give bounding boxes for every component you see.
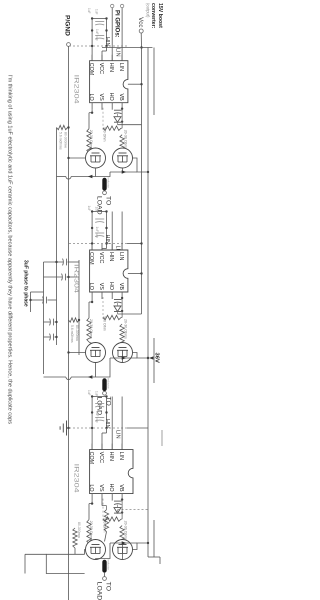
wire capC upper — [55, 336, 57, 338]
svg-text:VCC: VCC — [98, 63, 104, 74]
arrow up b2 — [122, 356, 127, 359]
junction VB b2 — [121, 297, 123, 299]
junction bank mid vcc b3 — [105, 411, 107, 413]
wire VCC b2 — [101, 249, 103, 250]
svg-text:LIN: LIN — [118, 252, 124, 260]
transistor Q3H — [113, 540, 133, 560]
terminal Vcc — [139, 29, 143, 33]
transistor Q3L — [86, 540, 106, 560]
pin LO U2 — [91, 292, 93, 299]
wire pcap1 lower — [44, 261, 64, 263]
wire source gnd b2 — [69, 352, 86, 354]
wire LIN b3 — [121, 397, 123, 450]
wire source loop b3 — [46, 554, 84, 573]
wire VCC jog b3 — [102, 432, 107, 434]
IC U3 IR2304 — [90, 450, 133, 494]
wire diode lead b3 — [117, 505, 119, 508]
svg-text:80-300mw: 80-300mw — [77, 522, 81, 538]
wire rail top seg3 — [153, 338, 155, 383]
wire bank close b3 — [92, 396, 106, 398]
wire vcc box drop b2 — [128, 273, 142, 275]
wire LO stub b3 — [91, 501, 93, 504]
wire VCC bank b2 — [106, 212, 108, 249]
wire HIN b3 — [111, 397, 113, 450]
wire gateL b3 — [89, 541, 93, 544]
svg-text:HO: HO — [108, 93, 114, 101]
wire vb link b2 — [121, 299, 123, 318]
capacitor C2boot — [114, 299, 122, 301]
wire bank close b1 — [92, 18, 106, 20]
svg-text:LIN: LIN — [115, 48, 121, 57]
junction diode vcc b3 — [121, 511, 123, 513]
svg-text:VCC: VCC — [98, 252, 104, 263]
svg-text:TO: TO — [104, 196, 111, 205]
wire VCC bank b3 — [106, 397, 108, 434]
pin HO U3 — [111, 494, 113, 501]
svg-text:300 Ohm: 300 Ohm — [103, 316, 107, 331]
svg-text:I'm thinking of using 1uF elec: I'm thinking of using 1uF electrolytic a… — [7, 75, 13, 424]
diode D2 bootstrap — [114, 306, 121, 312]
junction LO b2 — [91, 301, 93, 303]
wire LO jog b3 — [89, 503, 92, 505]
pin HO U1 — [111, 103, 113, 110]
resistor R1h gate high — [120, 135, 124, 156]
svg-text:HIN: HIN — [104, 419, 110, 429]
capacitor C1b 1uF — [95, 35, 104, 37]
svg-text:80-300mw: 80-300mw — [64, 132, 68, 148]
resistor R3h gate high — [120, 526, 124, 547]
wire boot vcc drop b1 — [118, 124, 142, 126]
wire source gnd b1 — [69, 157, 86, 159]
wire drain Q3H — [133, 543, 149, 550]
svg-text:VS: VS — [98, 283, 104, 291]
junction diode vcc b1 — [121, 121, 123, 123]
wire loop ext b3 — [25, 553, 46, 555]
wire VCC jog b2 — [102, 248, 107, 250]
wire LIN input b1 — [121, 8, 123, 61]
wire rail end jog — [148, 556, 160, 558]
capacitor C3a 1uF — [95, 403, 104, 405]
svg-text:VS: VS — [98, 484, 104, 492]
svg-text:VB: VB — [118, 283, 124, 291]
junction bank mid com b3 — [91, 411, 93, 413]
wire boot cap lead b1 — [121, 108, 122, 110]
wire GND rail — [68, 46, 70, 600]
wire capA upper — [48, 299, 57, 301]
junction source gnd b1 — [67, 157, 69, 159]
wire COM b1 — [91, 19, 93, 61]
transistor Q1L — [86, 148, 106, 168]
junction dash com b2 — [91, 242, 93, 244]
inductor L2 — [102, 378, 106, 391]
pin COM U1 — [91, 55, 93, 61]
capacitor C1a 1uF — [95, 21, 104, 23]
pin LIN U2 — [121, 244, 123, 250]
svg-text:15V boost: 15V boost — [157, 3, 163, 28]
arrow up b3 — [122, 541, 127, 544]
arrow down b1 — [88, 175, 93, 178]
svg-text:1uF: 1uF — [95, 9, 99, 15]
pin VCC U2 — [101, 244, 103, 250]
wire vb link b3 — [121, 501, 123, 519]
junction dash vcc b2 — [105, 242, 107, 244]
pin VS U2 — [101, 292, 103, 299]
arrow down b2 — [88, 375, 93, 378]
svg-text:1uF cap: 1uF cap — [95, 227, 99, 239]
resistor R2v — [103, 315, 121, 319]
junction vcc drop rail b2 — [140, 242, 142, 244]
svg-text:VCC: VCC — [98, 452, 104, 463]
wire rail top seg2 — [153, 520, 155, 557]
wire boot vcc drop b3 — [118, 509, 149, 511]
wire LO stub b2 — [91, 299, 93, 302]
wire shunt3 link — [74, 548, 76, 554]
svg-text:Pi GPIOs:: Pi GPIOs: — [114, 10, 120, 38]
wire capB upper — [55, 321, 57, 323]
resistor R3v — [103, 517, 121, 521]
junction drain rail b1 — [147, 171, 149, 173]
wire LO run b1 — [88, 113, 90, 129]
wire capA lower — [31, 299, 44, 301]
junction bank mid vcc b1 — [105, 29, 107, 31]
wire LO stub b1 — [91, 110, 93, 113]
wire gateH b1 — [121, 148, 123, 156]
svg-text:TO: TO — [104, 582, 111, 591]
pin HIN U1 — [111, 55, 113, 61]
wire vb link b1 — [121, 110, 123, 129]
svg-text:(output): (output) — [146, 3, 151, 18]
capacitor phase C1 — [66, 259, 68, 266]
wire rail top seg1 — [153, 48, 155, 116]
junction gnd symbol — [67, 427, 69, 429]
wire drain Q2H — [133, 353, 149, 359]
svg-text:converter:: converter: — [150, 3, 156, 29]
svg-text:LO: LO — [88, 93, 94, 100]
pin HIN U2 — [111, 244, 113, 250]
resistor R3l gate low — [87, 520, 91, 544]
svg-text:20-30 Ohms: 20-30 Ohms — [123, 130, 127, 150]
svg-text:LO: LO — [88, 283, 94, 290]
wire VS dashed b1 — [102, 108, 104, 130]
wire boot cap lead b2 — [121, 297, 122, 299]
IC U1 IR2304 — [90, 61, 128, 103]
pin VB U1 — [121, 103, 123, 110]
resistor R2l gate low — [87, 318, 91, 342]
svg-text:1uF: 1uF — [87, 390, 91, 396]
junction vcc drop b1 — [140, 83, 142, 85]
junction capB bus2 — [55, 321, 57, 323]
wire diode lead b1 — [117, 114, 119, 117]
wire LIN b2 — [121, 212, 123, 250]
capacitor phase C2 — [65, 274, 67, 281]
svg-text:36V: 36V — [154, 353, 160, 363]
pin LIN U1 — [121, 55, 123, 61]
svg-text:COM: COM — [88, 452, 94, 465]
capacitor 3uF B — [53, 319, 55, 326]
diode D1 bootstrap — [114, 117, 121, 123]
arrow 36V — [149, 356, 153, 359]
junction LO b3 — [91, 502, 93, 504]
terminal GPIO HIN — [111, 4, 114, 7]
wire capC lower — [44, 336, 51, 338]
pin LIN U3 — [121, 444, 123, 450]
wire gateH b2 — [121, 343, 123, 346]
wire bus3 — [43, 262, 45, 374]
svg-text:HIN: HIN — [108, 452, 114, 461]
pin LO U3 — [91, 494, 93, 501]
wire HIN input b1 — [111, 8, 113, 61]
wire VCC jog b1 — [102, 50, 107, 52]
junction capC bus2 — [55, 336, 57, 338]
svg-text:IR2304: IR2304 — [73, 464, 79, 494]
resistor Rs2 shunt — [69, 318, 80, 322]
svg-text:HIN: HIN — [108, 252, 114, 261]
wire pcap2 upper — [67, 276, 80, 278]
svg-text:P/GND: P/GND — [64, 15, 71, 36]
svg-text:20-30 Ohms: 20-30 Ohms — [89, 521, 93, 541]
wire gateH b3 — [121, 540, 123, 547]
IC U2 IR2304 — [90, 250, 128, 292]
svg-text:HO: HO — [108, 484, 114, 492]
wire drain Q1H — [133, 158, 149, 172]
svg-text:TO: TO — [104, 397, 111, 406]
wire VCC bank b1 — [106, 19, 108, 52]
junction bank mid com b1 — [91, 29, 93, 31]
wire load b2 — [104, 390, 106, 392]
capacitor C2b 1uF — [95, 232, 104, 234]
svg-text:1uF: 1uF — [95, 207, 99, 213]
wire Vcc riser — [102, 47, 153, 49]
junction source gnd b2 — [67, 351, 69, 353]
svg-text:HIN: HIN — [104, 235, 110, 245]
inductor L3 — [102, 560, 106, 573]
wire bus4 — [30, 292, 32, 312]
capacitor 3uF C — [53, 334, 55, 341]
arrow up b1 — [122, 170, 127, 173]
svg-text:20-30 Ohms: 20-30 Ohms — [89, 319, 93, 339]
pin VCC U3 — [101, 444, 103, 450]
wire VCC b3 — [101, 433, 103, 449]
wire load b3 — [104, 573, 106, 577]
wire COM b3 — [91, 397, 93, 450]
pin LO U1 — [91, 103, 93, 110]
resistor Rs1 shunt — [57, 125, 68, 129]
svg-text:LIN: LIN — [118, 63, 124, 71]
svg-text:IR2304: IR2304 — [73, 75, 79, 105]
junction dash vcc b1 — [105, 45, 107, 47]
svg-text:1uF cap: 1uF cap — [95, 411, 99, 423]
wire dashed gnd b3 — [69, 427, 128, 429]
wire pcap2 lower — [44, 276, 63, 278]
wire switch column b1 — [110, 171, 137, 173]
wire dashed gnd b1 — [69, 45, 128, 47]
transistor Q2L — [86, 343, 106, 363]
terminal P/GND — [67, 43, 71, 47]
wire bus4 riser — [31, 291, 44, 293]
svg-text:LOAD: LOAD — [95, 582, 102, 600]
svg-text:HO: HO — [108, 282, 114, 290]
pin COM U2 — [91, 244, 93, 250]
wire LO jog b1 — [89, 112, 92, 114]
junction LO b1 — [91, 112, 93, 114]
junction bank mid com b2 — [91, 227, 93, 229]
wire vcc drop solid b2 — [127, 243, 142, 245]
wire HIN b2 — [111, 212, 113, 250]
terminal TO LOAD b2 — [103, 391, 107, 395]
terminal GPIO LIN — [120, 4, 123, 7]
wire VS dashed b3 — [102, 499, 104, 521]
wire loop bottom b3 — [24, 554, 26, 573]
resistor R2h gate high — [120, 324, 124, 345]
junction diode vcc b2 — [121, 310, 123, 312]
svg-text:inductor: inductor — [107, 178, 111, 189]
junction bank mid vcc b2 — [105, 227, 107, 229]
resistor R3m mid — [104, 510, 108, 532]
pin HIN U3 — [111, 444, 113, 450]
wire LO jog b2 — [89, 301, 92, 303]
svg-text:COM: COM — [88, 63, 94, 76]
wire Vcc to junction — [140, 33, 142, 48]
wire vcc drop solid b3 — [127, 427, 148, 429]
wire VCC b1 — [101, 51, 103, 60]
wire bus1 — [78, 260, 80, 355]
capacitor C2a 1uF — [95, 218, 104, 220]
junction dash com b3 — [91, 427, 93, 429]
svg-text:20-30 Ohms: 20-30 Ohms — [123, 319, 127, 339]
capacitor C3boot — [114, 500, 122, 502]
svg-text:300 Ohm: 300 Ohm — [103, 127, 107, 142]
pin VS U3 — [101, 494, 103, 501]
wire dashed gnd b2 — [69, 243, 128, 245]
wire Rmid to fetL b3 — [105, 532, 107, 542]
svg-text:HIN: HIN — [104, 37, 110, 47]
svg-text:20-30 Ohms: 20-30 Ohms — [89, 130, 93, 150]
wire pcap1 upper — [68, 261, 80, 263]
wire vcc box drop b1 — [128, 83, 142, 85]
capacitor C1boot — [114, 109, 122, 111]
pin VS U1 — [101, 103, 103, 110]
svg-text:inductor: inductor — [107, 378, 111, 389]
capacitor C3b 1uF — [95, 417, 104, 419]
wire VS dashed b2 — [102, 297, 104, 319]
svg-text:80-300mw: 80-300mw — [75, 325, 79, 341]
junction Vcc — [140, 46, 142, 48]
svg-text:20-30 Ohms: 20-30 Ohms — [123, 521, 127, 541]
wire gateL b2 — [89, 342, 93, 344]
wire diode lead b2 — [117, 303, 119, 306]
wire source loop join b3 — [84, 550, 87, 555]
svg-text:VB: VB — [118, 93, 124, 101]
wire rail main 36V/Vcc — [147, 48, 149, 558]
pin VB U3 — [121, 494, 123, 501]
svg-text:1uF: 1uF — [87, 206, 91, 212]
svg-text:5.6 mOhms: 5.6 mOhms — [59, 132, 63, 150]
transistor Q1H — [113, 148, 133, 168]
capacitor 3uF A — [46, 297, 48, 304]
svg-text:1uF cap: 1uF cap — [95, 29, 99, 41]
svg-text:Vcc: Vcc — [137, 17, 144, 27]
wire switch column b3 — [110, 542, 137, 544]
svg-text:COM: COM — [88, 252, 94, 265]
terminal TO LOAD b3 — [103, 577, 107, 581]
svg-text:VS: VS — [98, 93, 104, 101]
svg-text:inductor: inductor — [107, 560, 111, 571]
wire rail end — [159, 557, 161, 564]
junction dash com b1 — [91, 45, 93, 47]
junction drain rail b2 — [147, 357, 149, 359]
wire VS stub ext b3 — [101, 501, 103, 506]
svg-text:3uF phase to phase: 3uF phase to phase — [23, 260, 29, 307]
resistor R1v — [103, 126, 121, 130]
svg-text:1uF: 1uF — [87, 8, 91, 14]
terminal TO LOAD b1 — [103, 191, 107, 195]
wire boot cap lead b3 — [121, 499, 122, 501]
wire LO run b2 — [88, 302, 90, 318]
wire rail Vcc mid — [141, 48, 143, 315]
pin VCC U1 — [101, 55, 103, 61]
wire bank close b2 — [92, 211, 106, 213]
junction dash vcc b3 — [105, 427, 107, 429]
junction capA bus4 — [29, 299, 31, 301]
wire bus2 — [56, 128, 58, 346]
svg-text:5.6 mOhms: 5.6 mOhms — [70, 325, 74, 343]
diode D3 bootstrap — [114, 508, 121, 513]
junction vcc drop b2 — [140, 272, 142, 274]
junction 36V — [147, 357, 149, 359]
junction drain rail b3 — [147, 542, 149, 544]
wire switch column b2 — [110, 357, 137, 359]
svg-text:1uF: 1uF — [95, 391, 99, 397]
svg-text:LIN: LIN — [118, 452, 124, 460]
inductor L1 — [102, 178, 106, 191]
transistor Q2H — [113, 343, 133, 363]
junction pcap2 gnd — [67, 276, 69, 278]
junction VB b3 — [121, 498, 123, 500]
svg-text:LIN: LIN — [115, 430, 121, 439]
wire stub top b3 — [161, 430, 163, 446]
pin COM U3 — [91, 444, 93, 450]
svg-text:VB: VB — [118, 484, 124, 492]
wire LO run b3 — [88, 504, 90, 520]
junction shunt2 bus1 — [78, 319, 80, 321]
junction VB b1 — [121, 108, 123, 110]
wire capB lower — [44, 321, 51, 323]
wire COM b2 — [91, 212, 93, 250]
wire boot vcc drop b2 — [118, 313, 142, 315]
svg-text:HIN: HIN — [108, 63, 114, 72]
pin HO U2 — [111, 292, 113, 299]
resistor Rs3 shunt — [73, 528, 77, 548]
svg-text:IR2304: IR2304 — [73, 264, 79, 294]
wire gateL b1 — [89, 150, 93, 153]
pin VB U2 — [121, 292, 123, 299]
junction pcap1 bus2 — [55, 261, 57, 263]
svg-text:LO: LO — [88, 484, 94, 491]
wire load b1 — [104, 190, 106, 192]
resistor R1l gate low — [87, 129, 91, 153]
junction shunt1 — [67, 126, 69, 128]
